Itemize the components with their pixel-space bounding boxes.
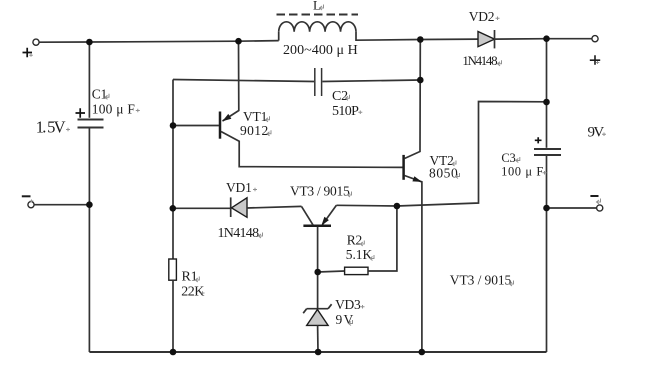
svg-text:22K: 22K [181,284,204,299]
svg-text:R1: R1 [182,270,198,285]
svg-text:9012: 9012 [240,123,268,138]
svg-text:VD3: VD3 [335,297,361,312]
svg-text:VT1: VT1 [243,109,267,124]
svg-text:8050: 8050 [429,166,458,181]
svg-text:C2: C2 [332,89,348,104]
svg-text:100 μ F: 100 μ F [501,165,543,179]
svg-text:200~400 μ H: 200~400 μ H [283,43,358,58]
svg-text:VD1: VD1 [226,180,252,195]
svg-text:VT3 / 9015: VT3 / 9015 [290,184,350,199]
svg-text:5.1K: 5.1K [346,247,373,262]
svg-text:1N4148: 1N4148 [462,53,497,68]
svg-text:9V: 9V [588,125,605,141]
svg-text:R2: R2 [347,233,362,248]
svg-text:C3: C3 [501,151,515,165]
svg-text:510P: 510P [332,104,359,119]
svg-text:C1: C1 [92,86,107,101]
svg-text:1N4148: 1N4148 [218,226,260,241]
svg-text:L: L [313,0,321,13]
svg-text:100 μ F: 100 μ F [92,102,136,117]
svg-text:1. 5V: 1. 5V [36,117,66,136]
svg-text:VT3 / 9015: VT3 / 9015 [450,273,512,288]
svg-text:VD2: VD2 [469,9,495,24]
